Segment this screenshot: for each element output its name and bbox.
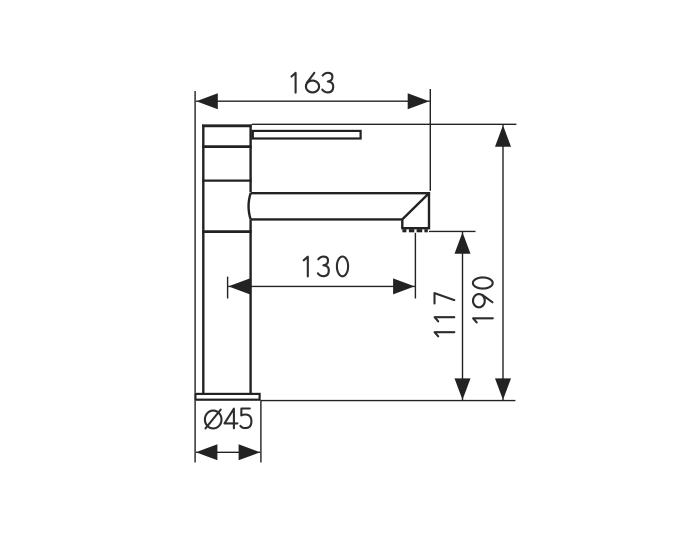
- arrowhead 130 right: [393, 278, 415, 294]
- body divider 2: [202, 180, 252, 182]
- arrowhead 163 left: [196, 93, 218, 109]
- extension line 130 right: [414, 233, 416, 299]
- top reference line: [252, 123, 517, 125]
- arrowhead 190 top: [495, 125, 511, 147]
- spout: [249, 193, 429, 228]
- dimension texts drawn as geometric strokes: [205, 73, 493, 429]
- dimension line 163: [196, 100, 430, 102]
- arrowhead 130 left: [228, 278, 250, 294]
- body divider 3: [202, 230, 252, 233]
- base plate: [195, 394, 259, 400]
- extension line d45 right: [260, 401, 262, 463]
- centerline tick 130: [227, 277, 229, 299]
- extension line 163 left: [194, 91, 196, 393]
- label 190 (rotated): [473, 277, 493, 322]
- arrowhead 163 right: [408, 93, 430, 109]
- faucet body column: [202, 124, 252, 393]
- handle lever: [253, 131, 361, 139]
- arrowhead 117 top: [455, 232, 471, 254]
- extension line 163 right: [429, 89, 431, 191]
- label 163: [292, 73, 334, 93]
- dimension line d45: [196, 451, 260, 453]
- arrowhead 190 bottom: [495, 378, 511, 400]
- dimension line 117: [462, 232, 464, 400]
- extension line d45 left: [194, 401, 196, 463]
- aerator: [402, 229, 427, 232]
- label 130: [304, 257, 348, 277]
- arrowhead d45 right: [239, 444, 261, 460]
- label diameter 45: [205, 409, 252, 429]
- dimension line 190: [502, 125, 504, 400]
- arrowhead 117 bottom: [455, 378, 471, 400]
- arrowhead d45 left: [196, 444, 218, 460]
- label 117 (rotated): [435, 293, 455, 336]
- body divider 1: [202, 145, 252, 148]
- dimension line 130: [228, 285, 415, 287]
- countertop line: [261, 400, 516, 402]
- extension line 117 top: [429, 230, 476, 232]
